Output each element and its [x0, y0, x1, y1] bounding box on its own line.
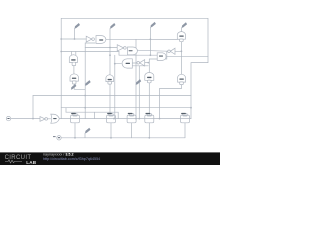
svg-text:LAB: LAB [26, 160, 37, 165]
svg-text:http://circuitlab.com/c/f3hp7q: http://circuitlab.com/c/f3hp7q64554 [43, 157, 100, 161]
svg-text:naynayxxxx / 3.5.2: naynayxxxx / 3.5.2 [43, 153, 74, 157]
